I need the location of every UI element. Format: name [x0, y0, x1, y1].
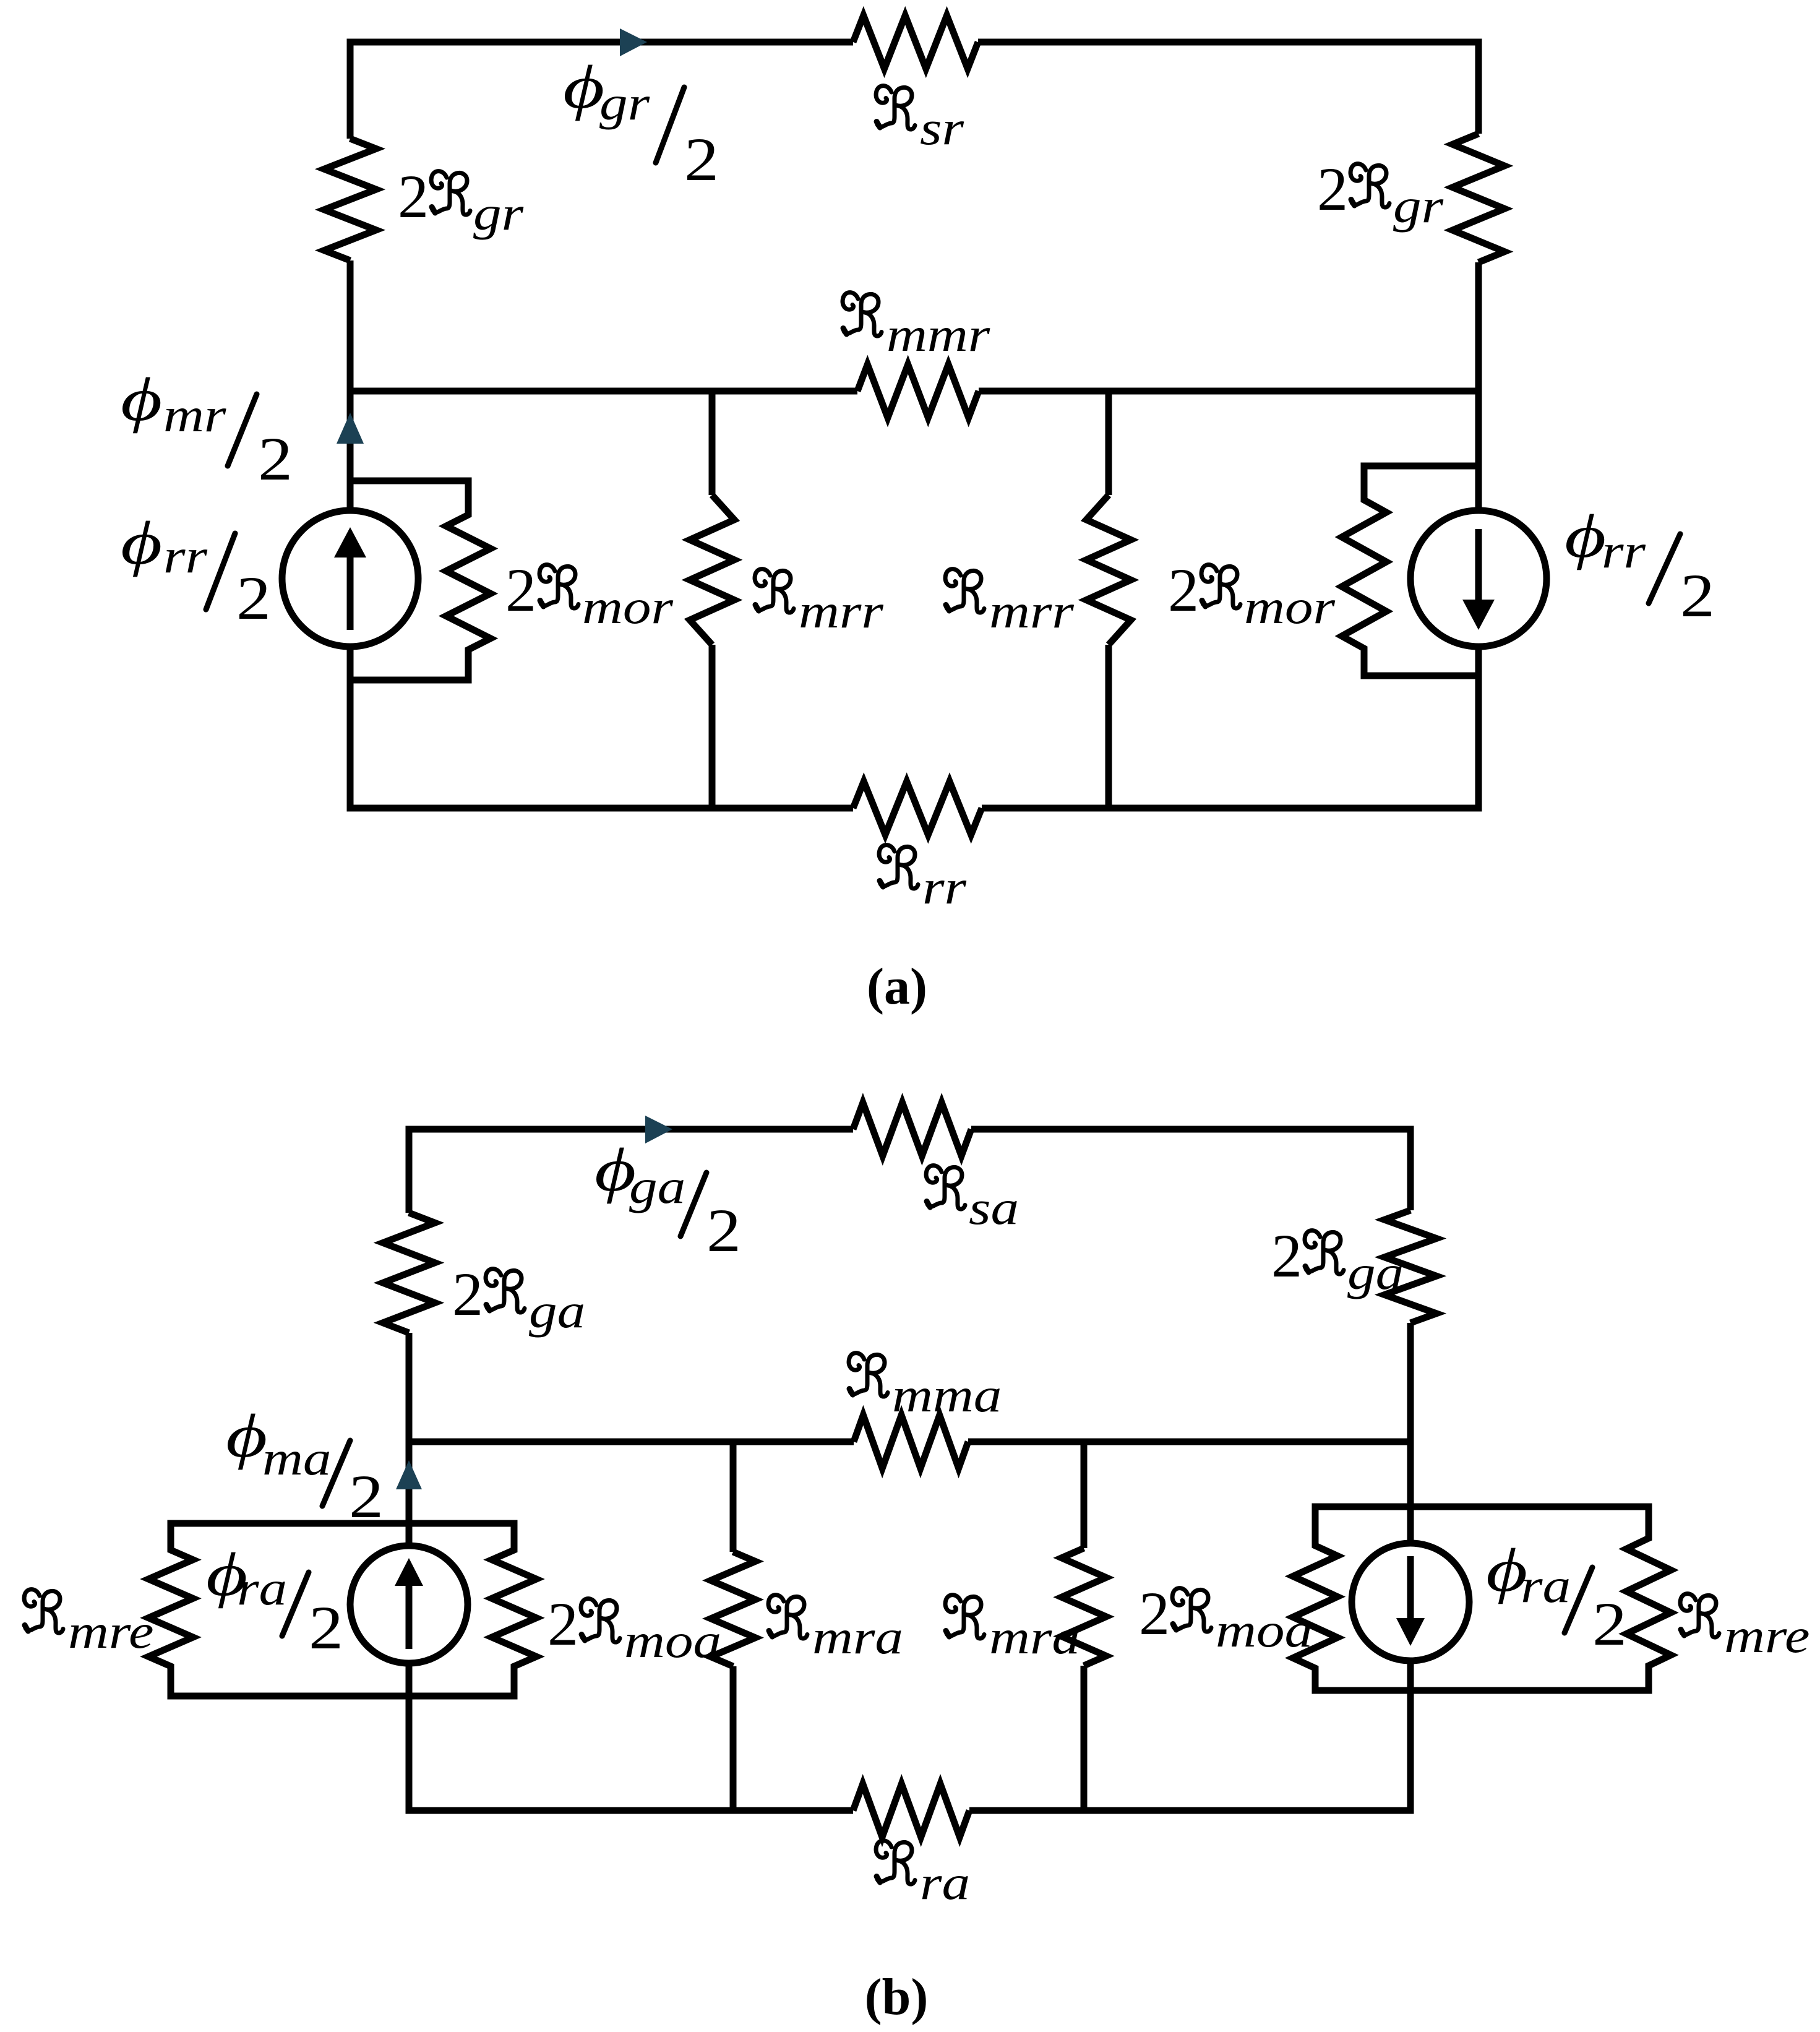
svg-text:ra: ra: [237, 1562, 287, 1615]
svg-text:2: 2: [398, 162, 429, 231]
wire: top wire left segment (b): [406, 1126, 854, 1133]
wire: bottom wire left segment: [347, 805, 854, 812]
svg-text:2: 2: [706, 1196, 741, 1265]
wire: right branch below circle: [1475, 647, 1482, 808]
svg-text:gr: gr: [473, 187, 524, 240]
resistor R_sr: [853, 15, 978, 69]
resistor R_mra 1: [711, 1552, 755, 1666]
svg-text:ga: ga: [529, 1285, 585, 1338]
svg-text:(b): (b): [865, 1968, 929, 2026]
svg-text:2: 2: [1592, 1590, 1627, 1658]
wire: left vertical to bus (b): [406, 1333, 413, 1442]
resistor R_mrr 2: [1086, 495, 1131, 645]
resistor R_mrr 1: [690, 495, 734, 645]
svg-text:moa: moa: [624, 1614, 721, 1668]
value label 2R_mor left: [505, 556, 674, 634]
wire: left vertical top lead: [347, 39, 354, 139]
wire: right vertical to bus: [1475, 262, 1482, 391]
value label 2R_gr right: [1317, 155, 1444, 233]
resistor 2R_ga right: [1384, 1210, 1436, 1323]
resistor R_mmr: [857, 364, 979, 418]
wire: right vertical top lead (b): [1407, 1126, 1414, 1211]
svg-text:(a): (a): [867, 958, 927, 1015]
outer loop top stub right: [1312, 1504, 1652, 1510]
svg-text:2: 2: [684, 125, 719, 194]
resistor 2R_ga left: [383, 1213, 435, 1333]
svg-text:2: 2: [258, 424, 293, 493]
parallel loop stub top left (2R_mor): [350, 478, 472, 484]
value label 2R_mor right: [1168, 556, 1336, 634]
wire: middle bus right segment: [979, 388, 1482, 395]
resistor 2R_moa right: [1293, 1504, 1337, 1691]
resistor R_mre left: [148, 1520, 193, 1697]
svg-text:sr: sr: [920, 101, 964, 155]
node label phi_rr/2 left: [121, 509, 271, 632]
node label phi_rr/2 right: [1565, 502, 1715, 630]
svg-text:mrr: mrr: [989, 585, 1075, 638]
svg-text:ra: ra: [1521, 1559, 1571, 1612]
value label R_mra 2: [945, 1595, 1080, 1664]
wire: right vertical top lead: [1475, 39, 1482, 134]
svg-text:2: 2: [1168, 556, 1199, 624]
wire: right vertical to bus (b): [1407, 1323, 1414, 1442]
wire: branch R_mrr 1 upper lead: [709, 391, 716, 495]
svg-text:ga: ga: [1347, 1246, 1404, 1299]
outer loop bottom stub right: [1312, 1687, 1652, 1694]
value label 2R_moa right: [1139, 1579, 1313, 1657]
svg-text:mma: mma: [892, 1369, 1002, 1422]
svg-text:2: 2: [1317, 155, 1348, 223]
wire: branch R_mra 1 lower lead: [730, 1666, 737, 1810]
value label R_mre right: [1680, 1594, 1809, 1663]
wire: top wire right segment (b): [971, 1126, 1414, 1133]
flux source phi_rr/2 left (circle, up arrow): [282, 510, 418, 647]
resistor R_mma: [854, 1415, 968, 1468]
svg-text:mor: mor: [582, 580, 674, 634]
wire: bottom wire right segment: [982, 805, 1482, 812]
svg-text:2: 2: [1139, 1579, 1170, 1648]
value label 2R_moa left: [547, 1590, 721, 1668]
resistor 2R_mor right: [1342, 463, 1386, 676]
flux direction arrow phi_gr/2 on top wire: [620, 28, 647, 56]
svg-text:mre: mre: [68, 1605, 154, 1658]
parallel loop stub top right (2R_mor): [1361, 463, 1479, 470]
svg-text:mmr: mmr: [886, 308, 990, 361]
value label R_ra: [876, 1841, 970, 1910]
wire: branch R_mra 2 upper lead: [1081, 1442, 1088, 1548]
value label R_mrr 1: [755, 569, 884, 639]
svg-text:mra: mra: [989, 1611, 1080, 1664]
svg-text:mrr: mrr: [799, 585, 884, 638]
flux direction arrow phi_mr/2 on left branch: [347, 391, 354, 510]
node label phi_gr/2: [563, 53, 719, 194]
svg-text:2: 2: [1680, 561, 1715, 630]
wire: branch R_mrr 1 lower lead: [709, 645, 716, 808]
svg-text:rr: rr: [163, 530, 208, 583]
value label R_rr: [879, 845, 967, 915]
svg-text:2: 2: [505, 556, 536, 624]
value label R_mmr: [843, 293, 990, 362]
resistor 2R_gr right: [1453, 134, 1505, 262]
flux source phi_ra/2 right (circle, down arrow) (b): [1407, 1442, 1414, 1544]
outer loop top stub left (R_mre): [168, 1520, 518, 1527]
svg-text:mr: mr: [163, 389, 226, 442]
resistor R_mra 2: [1062, 1548, 1106, 1666]
parallel loop stub bottom right: [1361, 673, 1479, 679]
value label R_sa: [926, 1166, 1019, 1235]
svg-text:ϕ: ϕ: [121, 509, 162, 577]
svg-text:gr: gr: [599, 77, 650, 130]
svg-text:mor: mor: [1244, 580, 1336, 634]
svg-text:rr: rr: [922, 861, 967, 914]
svg-text:mra: mra: [812, 1611, 903, 1664]
resistor R_ra: [853, 1784, 969, 1837]
value label 2R_ga right: [1271, 1221, 1404, 1299]
node label phi_mr/2: [121, 366, 293, 493]
node label phi_ra/2 left: [206, 1541, 343, 1662]
svg-text:mre: mre: [1724, 1609, 1810, 1663]
value label R_mre left: [24, 1590, 153, 1659]
resistor 2R_mor left: [446, 478, 491, 681]
svg-text:2: 2: [452, 1260, 483, 1328]
resistor R_mre right: [1626, 1504, 1671, 1691]
svg-text:gr: gr: [1393, 179, 1444, 233]
wire: branch R_mra 1 upper lead: [730, 1442, 737, 1552]
wire: branch R_mra 2 lower lead: [1081, 1666, 1088, 1810]
flux source phi_rr/2 right (circle, down arrow): [1475, 391, 1482, 512]
svg-text:ϕ: ϕ: [563, 53, 604, 121]
value label 2R_ga left: [452, 1260, 585, 1338]
svg-text:ma: ma: [262, 1432, 332, 1485]
svg-text:ga: ga: [629, 1160, 685, 1213]
node label phi_ma/2: [226, 1402, 384, 1531]
svg-text:ϕ: ϕ: [121, 366, 162, 434]
wire: branch R_mrr 2 lower lead: [1105, 645, 1112, 808]
wire: top wire right segment: [978, 39, 1482, 46]
svg-text:rr: rr: [1602, 525, 1646, 578]
svg-text:ϕ: ϕ: [1565, 502, 1606, 570]
svg-text:ra: ra: [920, 1856, 970, 1909]
wire: left branch below circle (b): [406, 1663, 413, 1810]
svg-text:2: 2: [236, 564, 271, 632]
svg-text:moa: moa: [1216, 1604, 1313, 1657]
wire: bottom wire right segment (b): [969, 1807, 1414, 1814]
flux direction arrow phi_ma/2 on left branch (b): [406, 1442, 413, 1546]
resistor 2R_gr left: [324, 139, 376, 260]
value label R_mrr 2: [945, 569, 1075, 639]
value label R_mra 1: [768, 1595, 903, 1664]
value label R_sr: [876, 86, 964, 155]
svg-text:sa: sa: [969, 1181, 1019, 1234]
parallel loop stub bottom left: [350, 677, 472, 684]
wire: middle bus left segment (b): [406, 1439, 854, 1445]
wire: right branch below circle (b): [1407, 1661, 1414, 1810]
node label phi_ra/2 right: [1486, 1536, 1627, 1658]
flux direction arrow phi_ga/2 on top wire (b): [645, 1116, 672, 1143]
wire: middle bus left segment: [347, 388, 858, 395]
svg-text:2: 2: [309, 1593, 343, 1662]
value label R_mma: [849, 1353, 1002, 1423]
resistor 2R_moa left: [492, 1520, 536, 1697]
svg-text:ϕ: ϕ: [226, 1402, 267, 1470]
flux source phi_ra/2 left (circle, up arrow) (b): [350, 1546, 468, 1663]
wire: left branch below circle: [347, 647, 354, 808]
wire: left vertical top lead (b): [406, 1126, 413, 1213]
resistor R_rr: [853, 781, 982, 835]
svg-text:2: 2: [547, 1590, 578, 1658]
wire: middle bus right segment (b): [968, 1439, 1414, 1445]
resistor R_sa: [853, 1103, 971, 1156]
svg-text:2: 2: [1271, 1221, 1302, 1290]
wire: left vertical to bus: [347, 260, 354, 391]
value label 2R_gr left: [398, 162, 524, 240]
wire: branch R_mrr 2 upper lead: [1105, 391, 1112, 495]
outer loop bottom stub left: [168, 1693, 518, 1700]
wire: bottom wire left segment (b): [406, 1807, 854, 1814]
wire: top wire left segment: [347, 39, 854, 46]
node label phi_ga/2: [595, 1136, 741, 1265]
